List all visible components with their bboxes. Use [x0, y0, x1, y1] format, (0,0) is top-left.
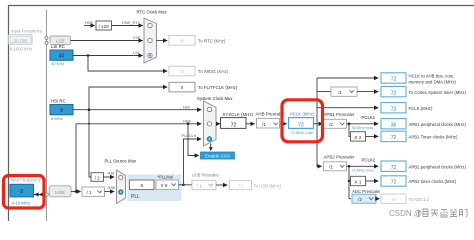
svg-text:/ 1: / 1	[197, 184, 203, 189]
svg-text:72 MHz max: 72 MHz max	[291, 130, 313, 135]
svg-text:HSI RC: HSI RC	[51, 99, 66, 104]
multiplier X2	[351, 132, 366, 141]
svg-text:8: 8	[20, 189, 23, 195]
wire HSI to system clock mux	[73, 109, 201, 111]
wire to AHB bus box	[317, 77, 378, 79]
svg-text:4-16 MHz: 4-16 MHz	[12, 201, 31, 206]
wire HCLK to rail	[314, 123, 323, 125]
svg-text:X 9: X 9	[161, 183, 168, 188]
svg-text:PLLCLK: PLLCLK	[182, 133, 197, 138]
svg-text:*PLLMul: *PLLMul	[158, 174, 174, 179]
To USB box	[230, 180, 252, 189]
wire LSI to RTC mux	[73, 55, 143, 57]
APB1 timer value box	[381, 131, 406, 141]
wire to Enable CSS	[188, 124, 199, 156]
red highlight HCLK	[282, 100, 323, 142]
USB prescaler dropdown /1	[192, 180, 216, 189]
divider /2 (HSI)	[91, 173, 104, 182]
svg-text:8-1000 KHz: 8-1000 KHz	[10, 47, 33, 52]
wire HSE to prediv	[71, 191, 81, 193]
svg-text:40 KHz: 40 KHz	[51, 61, 64, 66]
oscillator LSI RC 40	[50, 50, 73, 60]
oscillator LSE (disabled)	[50, 36, 71, 45]
svg-text:HSE_RTC: HSE_RTC	[122, 20, 141, 25]
svg-text:PCLK2: PCLK2	[362, 158, 376, 163]
wire to FCLK box	[317, 107, 378, 109]
svg-text:PLL Source Mux: PLL Source Mux	[105, 158, 137, 163]
wire sys mux to SYSCLK	[216, 123, 220, 125]
HCLK AHB value box	[381, 73, 406, 83]
multiplier X1	[351, 176, 366, 185]
oscillator HSI RC 8	[50, 105, 73, 115]
svg-text:APB1 peripheral clocks (MHz): APB1 peripheral clocks (MHz)	[409, 122, 467, 127]
system clock mux	[204, 101, 217, 151]
svg-text:8 MHz: 8 MHz	[51, 116, 63, 121]
junction X1	[348, 180, 350, 182]
svg-text:8: 8	[140, 183, 143, 189]
APB2 peripheral value box	[381, 161, 406, 171]
junction LSI	[87, 54, 90, 57]
svg-text:36: 36	[391, 122, 397, 128]
svg-text:/1: /1	[338, 90, 342, 95]
svg-text:40: 40	[59, 54, 65, 60]
junction PLLCLK	[182, 184, 185, 187]
To RTC box	[169, 36, 195, 46]
red highlight input frequency	[4, 176, 45, 209]
RTC clock mux	[144, 18, 157, 63]
AHB prescaler dropdown /1	[257, 118, 280, 128]
wire PLL out	[179, 184, 184, 186]
svg-text:/1: /1	[262, 122, 266, 127]
Enable CSS button	[201, 152, 235, 159]
SYSCLK box 72	[221, 118, 247, 129]
APB1 peripheral value box	[381, 119, 406, 129]
ADC prescaler dropdown /2	[352, 194, 376, 203]
wire PCLK1 to X2	[349, 124, 351, 137]
HSE pin wire with arrows	[34, 194, 45, 196]
svg-text:HSI: HSI	[183, 104, 190, 109]
wire HSE up to sys mux	[76, 124, 201, 192]
svg-text:HSE: HSE	[108, 185, 117, 190]
svg-text:X 1: X 1	[355, 179, 362, 184]
PLLMul dropdown X 9	[156, 180, 179, 190]
svg-text:System Clock Mux: System Clock Mux	[197, 96, 233, 101]
svg-text:72: 72	[391, 165, 397, 171]
svg-text:72: 72	[391, 106, 397, 112]
HCLK distribution rail	[317, 78, 322, 166]
svg-text:USB Prescaler: USB Prescaler	[192, 173, 219, 178]
To IWDG box	[169, 66, 195, 76]
svg-text:Enable CSS: Enable CSS	[205, 153, 230, 158]
HCLK box 72	[289, 118, 314, 129]
svg-text:To Cortex System timer (MHz): To Cortex System timer (MHz)	[409, 90, 467, 95]
svg-text:LSI RC: LSI RC	[51, 44, 65, 49]
svg-text:HSE: HSE	[85, 20, 94, 25]
svg-text:LSI: LSI	[133, 50, 139, 55]
svg-text:APB2 Prescaler: APB2 Prescaler	[324, 154, 356, 159]
svg-text:ADC Prescaler: ADC Prescaler	[352, 189, 381, 194]
wire HSI to FLITFCLK	[89, 87, 167, 110]
svg-text:APB2 timer clocks (MHz): APB2 timer clocks (MHz)	[409, 179, 457, 184]
junction PCLK2	[348, 165, 351, 168]
svg-text:/2: /2	[329, 122, 333, 127]
svg-text:36 MHz max: 36 MHz max	[352, 125, 374, 130]
wire HSE stub to /128	[84, 25, 95, 27]
svg-text:X 2: X 2	[355, 135, 362, 140]
svg-text:APB2 peripheral clocks (MHz): APB2 peripheral clocks (MHz)	[409, 164, 467, 169]
svg-text:To RTC (KHz): To RTC (KHz)	[198, 38, 226, 43]
To ADC box	[381, 194, 406, 203]
wire AHB prescaler to HCLK	[280, 123, 287, 125]
svg-text:RTC Clock Mux: RTC Clock Mux	[137, 10, 168, 15]
input frequency box 32.768	[9, 35, 33, 44]
svg-text:/ 128: / 128	[99, 24, 110, 29]
PLL input value box	[130, 180, 155, 190]
svg-text:SYSCLK (MHz): SYSCLK (MHz)	[223, 112, 254, 117]
wire LSE to RTC mux	[71, 40, 143, 42]
wire ADC prescaler to box	[376, 198, 379, 200]
svg-text:HSE: HSE	[183, 118, 192, 123]
svg-text:8: 8	[60, 108, 63, 114]
svg-text:Input Frequency: Input Frequency	[11, 29, 43, 34]
wire PLLCLK to USB prescaler	[184, 184, 193, 186]
wire /2 to PLL mux	[104, 176, 115, 178]
svg-text:/1: /1	[329, 165, 333, 170]
canvas top border	[8, 5, 474, 7]
svg-text:72: 72	[391, 90, 397, 96]
svg-text:To FLITFCLK (MHz): To FLITFCLK (MHz)	[198, 85, 238, 90]
svg-text:72: 72	[298, 122, 304, 128]
svg-text:HCLK to AHB bus, core,: HCLK to AHB bus, core,	[409, 73, 455, 78]
svg-text:72: 72	[391, 135, 397, 141]
svg-text:FCLK (MHz): FCLK (MHz)	[409, 106, 433, 111]
wire APB2 prescaler to box (PCLK2)	[347, 165, 379, 167]
svg-text:/2: /2	[358, 197, 362, 202]
wire cortex prescaler to box	[357, 91, 378, 93]
LSE pin circles	[45, 37, 48, 40]
svg-text:CSDN @: CSDN @	[389, 209, 422, 218]
To FLITFCLK box	[169, 82, 195, 92]
svg-text:Input Frequency: Input Frequency	[10, 178, 42, 183]
cortex timer value box	[381, 86, 406, 96]
svg-text:HSE: HSE	[55, 190, 65, 196]
oscillator HSE	[49, 186, 71, 197]
junction HSE	[75, 190, 78, 193]
wire USB prescaler to box	[216, 184, 227, 186]
svg-text:To ADC1,2: To ADC1,2	[409, 197, 430, 202]
junction PCLK1	[348, 123, 351, 126]
svg-text:32.768: 32.768	[14, 38, 28, 43]
junction crossing blob	[88, 123, 90, 125]
APB2 timer value box	[381, 176, 406, 186]
wire to X1	[349, 180, 351, 182]
svg-text:HSI: HSI	[108, 170, 115, 175]
HSE prediv dropdown /1	[82, 187, 105, 196]
svg-text:To USB (MHz): To USB (MHz)	[254, 183, 282, 188]
svg-text:40: 40	[180, 38, 185, 43]
svg-text:72: 72	[231, 122, 237, 128]
wire prediv to PLL mux	[105, 191, 115, 193]
canvas left border	[8, 5, 10, 221]
svg-text:36: 36	[391, 197, 396, 202]
svg-text:To IWDG (KHz): To IWDG (KHz)	[198, 69, 229, 74]
wire PCLK2 down to X1 and ADC	[349, 166, 351, 198]
APB1 prescaler dropdown /2	[324, 119, 347, 128]
svg-text:PCLK1: PCLK1	[362, 115, 376, 120]
wire SYSCLK to AHB prescaler	[246, 123, 255, 125]
svg-text:/ 1: / 1	[86, 190, 92, 195]
wire X2 to box	[366, 135, 379, 137]
svg-text:memory and DMA (MHz): memory and DMA (MHz)	[409, 79, 457, 84]
svg-text:72: 72	[391, 180, 397, 186]
svg-text:LSE: LSE	[133, 35, 141, 40]
svg-text:72 MHz max: 72 MHz max	[352, 167, 374, 172]
svg-text:HCLK (MHz): HCLK (MHz)	[290, 111, 315, 116]
HSE pin circle	[45, 193, 48, 196]
wire PLLCLK up to sys mux	[184, 139, 202, 185]
junction HSE/CSS	[187, 123, 190, 126]
divider /128	[96, 21, 112, 30]
svg-text:APB1 Timer clocks (MHz): APB1 Timer clocks (MHz)	[409, 135, 459, 140]
svg-text:APB1 Prescaler: APB1 Prescaler	[324, 112, 356, 117]
left pin rail	[46, 10, 48, 221]
wire APB1 prescaler to box (PCLK1)	[347, 123, 379, 125]
cortex prescaler dropdown /1	[331, 87, 357, 96]
svg-text:/ 2: / 2	[95, 175, 100, 180]
svg-text:72: 72	[391, 77, 397, 83]
svg-text:72: 72	[238, 183, 243, 188]
wire HSI down to /2	[89, 110, 91, 177]
svg-text:PLL: PLL	[131, 194, 140, 200]
PLL source mux	[117, 170, 126, 204]
watermark	[389, 209, 467, 218]
PLL block	[128, 175, 182, 202]
wire X1 to box	[366, 180, 379, 182]
wire LSI to IWDG	[88, 56, 167, 72]
svg-text:40: 40	[180, 69, 185, 74]
wire RTC mux to To RTC	[157, 40, 168, 42]
FCLK value box	[381, 103, 406, 113]
wire to cortex prescaler	[317, 91, 331, 93]
wire /128 to RTC mux	[112, 25, 143, 27]
APB2 prescaler dropdown /1	[324, 162, 347, 171]
HSE input frequency box 8	[10, 184, 34, 197]
junction HSI	[88, 108, 91, 111]
